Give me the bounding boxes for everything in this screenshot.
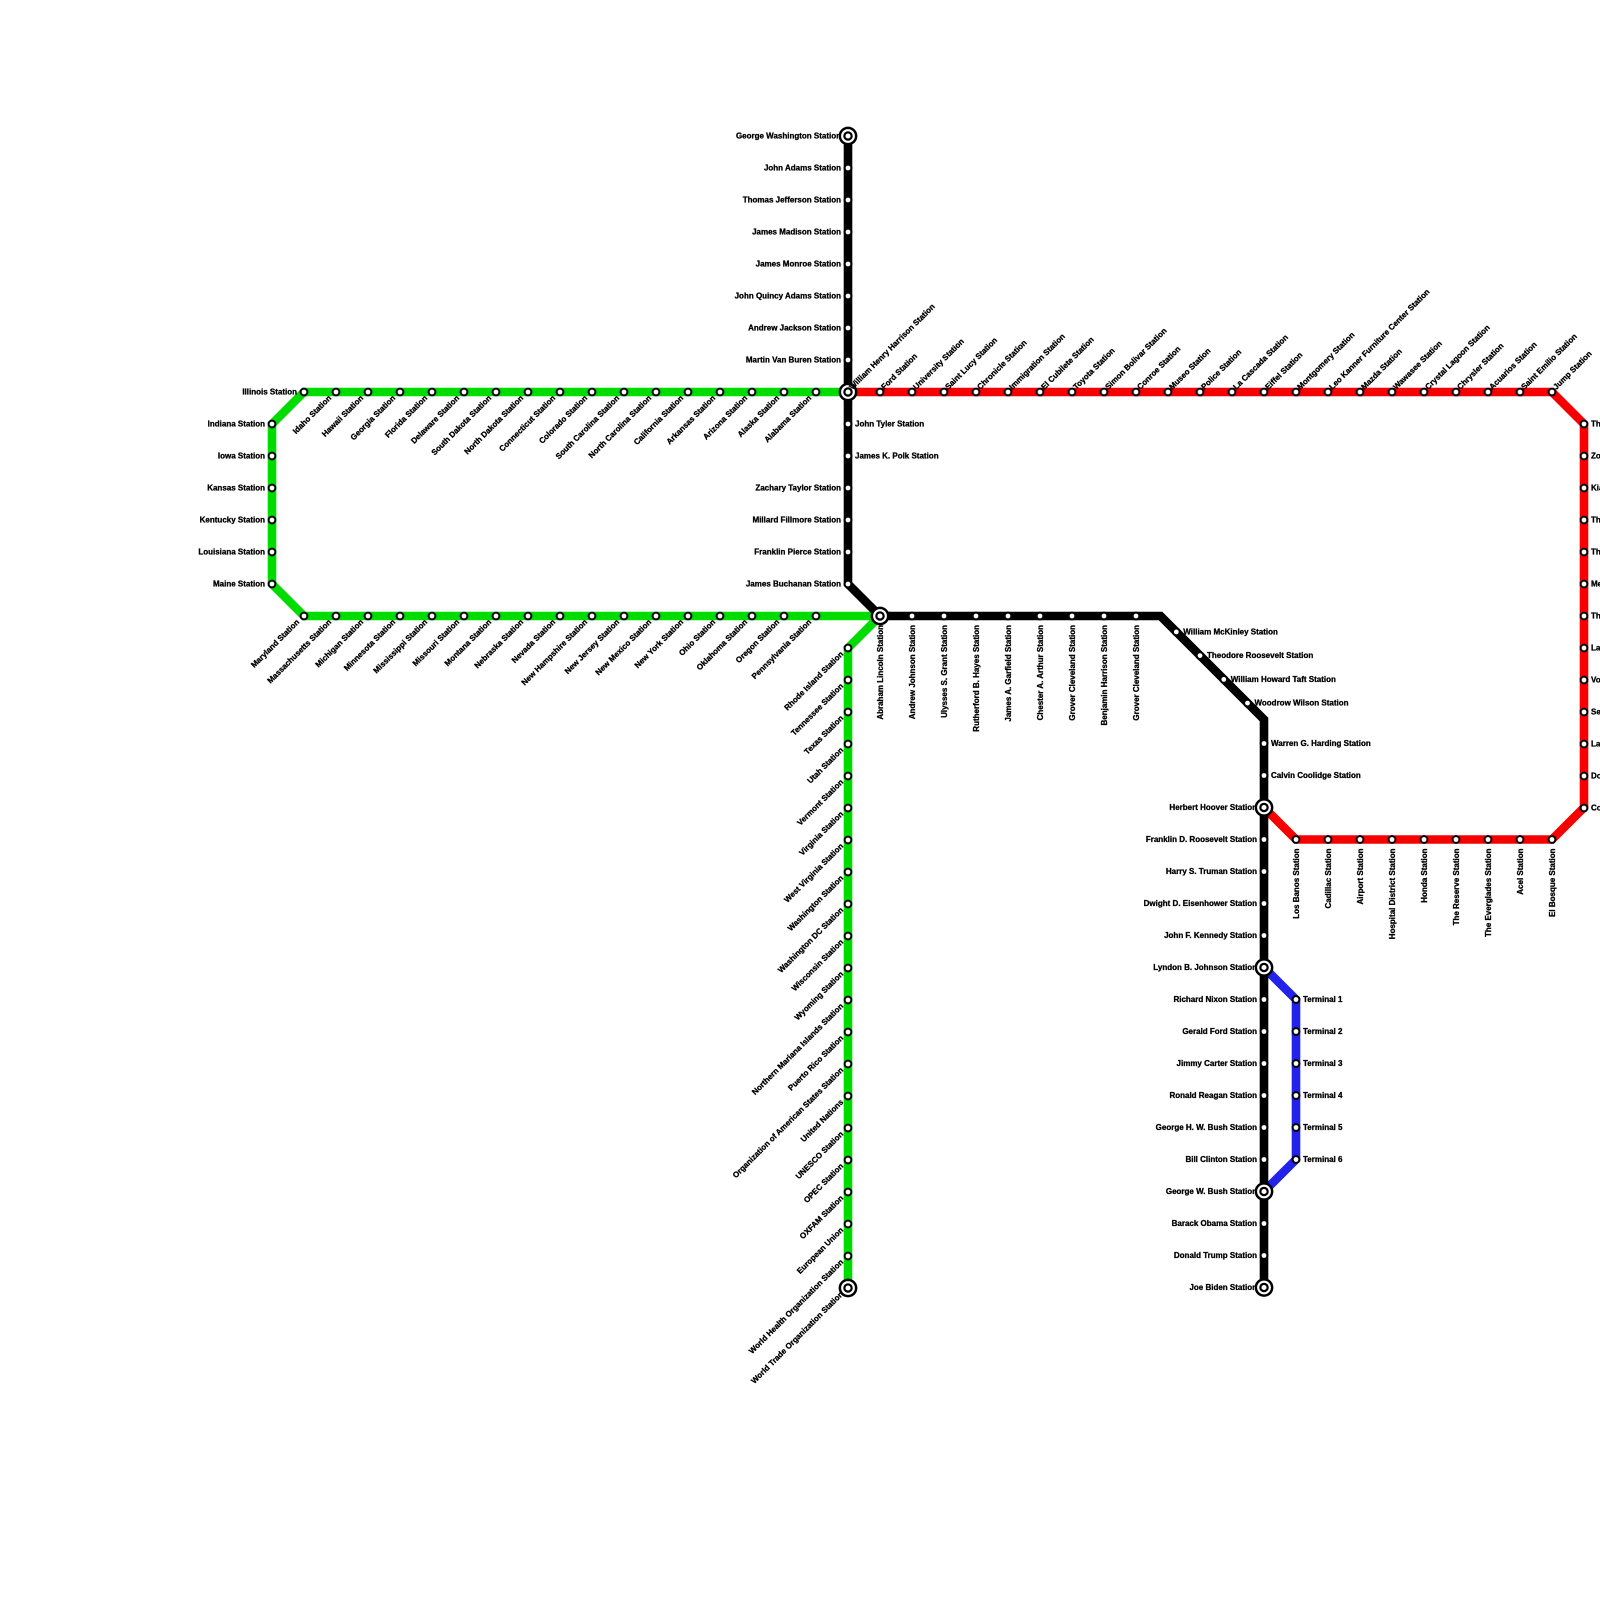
station John F. Kennedy Station <box>1164 931 1268 940</box>
station Grover Cleveland Station <box>1068 612 1077 721</box>
svg-text:Harry S. Truman Station: Harry S. Truman Station <box>1166 867 1257 876</box>
station Conroe Station <box>1132 344 1183 396</box>
station Abraham Lincoln Station <box>871 607 890 720</box>
station Massachusetts Station <box>266 612 341 686</box>
station New Hampshire Station <box>520 612 597 688</box>
station Chrysler Station <box>1452 341 1506 396</box>
black line (Presidents line) <box>848 136 1264 1288</box>
station Ford Station <box>876 352 920 397</box>
svg-text:Acel Station: Acel Station <box>1516 848 1525 894</box>
station Warren G. Harding Station <box>1260 739 1371 748</box>
svg-text:George Washington Station: George Washington Station <box>736 131 841 140</box>
station Eiffel Station <box>1260 350 1305 396</box>
station Florida Station <box>383 388 436 440</box>
station Maine Station <box>213 579 276 588</box>
svg-text:Jimmy Carter Station: Jimmy Carter Station <box>1177 1059 1258 1068</box>
station Arizona Station <box>701 388 756 442</box>
station New Mexico Station <box>594 612 661 678</box>
station Police Station <box>1196 348 1244 397</box>
svg-text:Cadillac Station: Cadillac Station <box>1324 848 1333 908</box>
station Missouri Station <box>411 612 469 668</box>
svg-text:James Monroe Station: James Monroe Station <box>756 259 841 268</box>
svg-text:Andrew Johnson Station: Andrew Johnson Station <box>908 625 917 719</box>
station Millard Fillmore Station <box>753 515 853 524</box>
svg-text:The Everglades Station: The Everglades Station <box>1484 848 1493 937</box>
svg-text:Kentucky Station: Kentucky Station <box>200 515 265 524</box>
station Delaware Station <box>409 388 468 446</box>
station Kentucky Station <box>200 515 277 524</box>
svg-text:Ronald Reagan Station: Ronald Reagan Station <box>1169 1091 1257 1100</box>
station Zachary Taylor Station <box>755 483 852 492</box>
station United Nations <box>799 1092 852 1144</box>
station Idaho Station <box>291 388 340 436</box>
station Georgia Station <box>349 388 405 443</box>
station Terminal 5 <box>1292 1123 1343 1132</box>
svg-text:John Adams Station: John Adams Station <box>764 163 841 172</box>
svg-text:Woodrow Wilson Station: Woodrow Wilson Station <box>1255 699 1349 708</box>
station Louisiana Station <box>198 547 276 556</box>
svg-text:John F. Kennedy Station: John F. Kennedy Station <box>1164 931 1257 940</box>
station Rutherford B. Hayes Station <box>972 612 981 732</box>
station George Washington Station <box>736 127 857 146</box>
station William Howard Taft Station <box>1219 675 1336 684</box>
station Kia Station <box>1580 483 1600 492</box>
svg-text:The Lakes Station: The Lakes Station <box>1591 515 1600 524</box>
svg-text:James Madison Station: James Madison Station <box>752 227 841 236</box>
svg-text:Terminal 1: Terminal 1 <box>1303 995 1343 1004</box>
station The Pines Station <box>1580 547 1600 556</box>
station World Health Organization Station <box>747 1252 852 1356</box>
station Herbert Hoover Station <box>1169 798 1273 817</box>
svg-text:James K. Polk Station: James K. Polk Station <box>855 451 939 460</box>
svg-text:Terminal 2: Terminal 2 <box>1303 1027 1343 1036</box>
station Arkansas Station <box>665 388 725 447</box>
station The Docks Station <box>1580 611 1600 620</box>
station John Quincy Adams Station <box>735 291 853 300</box>
station Oklahoma Station <box>695 612 757 673</box>
station Terminal 3 <box>1292 1059 1343 1068</box>
station Leo Kanner Furniture Center Station <box>1324 287 1432 396</box>
station Michigan Station <box>314 612 373 670</box>
svg-text:Lyndon B. Johnson Station: Lyndon B. Johnson Station <box>1153 963 1257 972</box>
station George H. W. Bush Station <box>1156 1123 1269 1132</box>
svg-text:The Docks Station: The Docks Station <box>1591 611 1600 620</box>
station The Lakes Station <box>1580 515 1600 524</box>
svg-text:Benjamin Harrison Station: Benjamin Harrison Station <box>1100 625 1109 726</box>
station University Station <box>908 337 966 397</box>
station Benjamin Harrison Station <box>1100 612 1109 726</box>
station Terminal 4 <box>1292 1091 1343 1100</box>
station South Carolina Station <box>554 388 629 461</box>
svg-text:Indiana Station: Indiana Station <box>208 419 265 428</box>
station Chester A. Arthur Station <box>1036 612 1045 721</box>
station Colorado Station <box>537 388 596 446</box>
red line (East loop line) <box>848 392 1584 840</box>
station North Carolina Station <box>587 388 661 460</box>
svg-text:Theodore Roosevelt Station: Theodore Roosevelt Station <box>1207 651 1313 660</box>
svg-text:Grover Cleveland Station: Grover Cleveland Station <box>1132 625 1141 721</box>
svg-text:James A. Garfield Station: James A. Garfield Station <box>1004 625 1013 722</box>
station New York Station <box>633 612 693 670</box>
station Saint Lucy Station <box>940 336 1000 397</box>
station Mercado Station <box>1580 579 1600 588</box>
station El Bosque Station <box>1548 835 1557 917</box>
svg-text:Kia Station: Kia Station <box>1591 483 1600 492</box>
station Wyoming Station <box>793 964 853 1023</box>
station Oregon Station <box>734 612 788 665</box>
svg-text:Louisiana Station: Louisiana Station <box>198 547 265 556</box>
station Andrew Jackson Station <box>748 323 852 332</box>
svg-text:Joe Biden Station: Joe Biden Station <box>1189 1283 1257 1292</box>
station Dwight D. Eisenhower Station <box>1144 899 1269 908</box>
station Lyndon B. Johnson Station <box>1153 958 1273 977</box>
station Montgomery Station <box>1292 330 1357 396</box>
station West Virginia Station <box>782 836 852 905</box>
station OPEC Station <box>802 1156 852 1205</box>
svg-text:Terminal 5: Terminal 5 <box>1303 1123 1343 1132</box>
station Organization of American States Station <box>731 1060 852 1180</box>
station Chronicle Station <box>972 338 1029 396</box>
station Illinois Station <box>242 387 308 396</box>
station Wawasee Station <box>1388 339 1444 396</box>
svg-text:Grover Cleveland Station: Grover Cleveland Station <box>1068 625 1077 721</box>
station Franklin Pierce Station <box>754 547 852 556</box>
svg-text:Bill Clinton Station: Bill Clinton Station <box>1185 1155 1257 1164</box>
svg-text:Franklin D. Roosevelt Station: Franklin D. Roosevelt Station <box>1146 835 1257 844</box>
station Alaska Station <box>736 388 789 439</box>
station Toyota Station <box>1068 346 1117 396</box>
station Grover Cleveland Station <box>1132 612 1141 721</box>
station Mazda Station <box>1356 347 1404 396</box>
svg-text:Millard Fillmore Station: Millard Fillmore Station <box>753 515 842 524</box>
station Vermont Station <box>795 772 852 828</box>
svg-text:Zachary Taylor Station: Zachary Taylor Station <box>755 483 841 492</box>
svg-text:Honda Station: Honda Station <box>1420 848 1429 902</box>
station Hospital District Station <box>1388 835 1397 939</box>
svg-text:Warren G. Harding Station: Warren G. Harding Station <box>1271 739 1371 748</box>
svg-text:Gerald Ford Station: Gerald Ford Station <box>1182 1027 1257 1036</box>
station South Dakota Station <box>430 388 501 458</box>
svg-text:Herbert Hoover Station: Herbert Hoover Station <box>1169 803 1257 812</box>
station Hawaii Station <box>320 388 372 439</box>
station Texas Station <box>802 708 852 757</box>
svg-text:Iowa Station: Iowa Station <box>218 451 265 460</box>
svg-text:Illinois Station: Illinois Station <box>242 387 297 396</box>
station James Madison Station <box>752 227 852 236</box>
svg-text:William McKinley Station: William McKinley Station <box>1183 627 1278 636</box>
station James Buchanan Station <box>746 579 853 588</box>
station Utah Station <box>806 740 853 786</box>
station Thomas Jefferson Station <box>743 195 853 204</box>
station California Station <box>632 388 692 447</box>
station James A. Garfield Station <box>1004 612 1013 722</box>
station The Hills Station <box>1580 419 1600 428</box>
station New Jersey Station <box>563 612 628 676</box>
svg-text:Andrew Jackson Station: Andrew Jackson Station <box>748 323 841 332</box>
station Downtown Station <box>1580 771 1600 780</box>
station UNESCO Station <box>794 1124 852 1181</box>
station Indiana Station <box>208 419 277 428</box>
station Coliseo Station <box>1580 803 1600 812</box>
station La Cascada Station <box>1228 333 1290 397</box>
station Jump Station <box>1548 349 1594 396</box>
station Theodore Roosevelt Station <box>1196 651 1314 660</box>
station Washington DC Station <box>776 900 852 975</box>
svg-text:John Quincy Adams Station: John Quincy Adams Station <box>735 291 841 300</box>
svg-text:John Tyler Station: John Tyler Station <box>855 419 924 428</box>
svg-text:Zoo Station: Zoo Station <box>1591 451 1600 460</box>
station Maryland Station <box>249 612 308 670</box>
station Gerald Ford Station <box>1182 1027 1268 1036</box>
svg-text:Calvin Coolidge Station: Calvin Coolidge Station <box>1271 771 1361 780</box>
station Barack Obama Station <box>1172 1219 1269 1228</box>
station Simon Bolivar Station <box>1100 326 1169 396</box>
svg-text:Abraham Lincoln Station: Abraham Lincoln Station <box>876 625 885 720</box>
station Donald Trump Station <box>1174 1251 1269 1260</box>
station OXFAM Station <box>798 1188 852 1241</box>
station Franklin D. Roosevelt Station <box>1146 835 1269 844</box>
station Cadillac Station <box>1324 835 1333 908</box>
station Alabama Station <box>763 388 821 445</box>
station John Tyler Station <box>844 419 925 428</box>
station Immigration Station <box>1004 332 1067 397</box>
station Nebraska Station <box>473 612 533 671</box>
station Airport Station <box>1356 835 1365 904</box>
station Kansas Station <box>207 483 276 492</box>
station Connecticut Station <box>497 388 564 454</box>
station Richard Nixon Station <box>1173 995 1268 1004</box>
station Terminal 1 <box>1292 995 1343 1004</box>
svg-text:Terminal 6: Terminal 6 <box>1303 1155 1343 1164</box>
svg-text:La Paz Station: La Paz Station <box>1591 643 1600 652</box>
station Martin Van Buren Station <box>746 355 853 364</box>
svg-text:Thomas Jefferson Station: Thomas Jefferson Station <box>743 195 841 204</box>
svg-text:Richard Nixon Station: Richard Nixon Station <box>1173 995 1257 1004</box>
svg-text:Terminal 4: Terminal 4 <box>1303 1091 1343 1100</box>
station John Adams Station <box>764 163 852 172</box>
svg-text:Downtown Station: Downtown Station <box>1591 771 1600 780</box>
svg-text:Coliseo Station: Coliseo Station <box>1591 803 1600 812</box>
station William Henry Harrison Station <box>839 302 937 401</box>
svg-text:Ulysses S. Grant Station: Ulysses S. Grant Station <box>940 625 949 718</box>
svg-text:Barack Obama Station: Barack Obama Station <box>1172 1219 1257 1228</box>
station World Trade Organization Station <box>749 1279 857 1386</box>
station Ronald Reagan Station <box>1169 1091 1268 1100</box>
station Northern Mariana Islands Station <box>750 996 852 1097</box>
svg-text:The Reserve Station: The Reserve Station <box>1452 848 1461 925</box>
station Virginia Station <box>797 804 852 858</box>
station Wisconsin Station <box>790 932 853 993</box>
svg-text:Terminal 3: Terminal 3 <box>1303 1059 1343 1068</box>
station Woodrow Wilson Station <box>1243 699 1349 708</box>
station The Everglades Station <box>1484 835 1493 937</box>
svg-text:Airport Station: Airport Station <box>1356 848 1365 904</box>
svg-text:George W. Bush Station: George W. Bush Station <box>1166 1187 1257 1196</box>
station Puerto Rico Station <box>786 1028 852 1093</box>
station Terminal 6 <box>1292 1155 1343 1164</box>
station Seaport Station <box>1580 707 1600 716</box>
station Honda Station <box>1420 835 1429 903</box>
station North Dakota Station <box>463 388 533 457</box>
svg-text:The Pines Station: The Pines Station <box>1591 547 1600 556</box>
svg-text:El Bosque Station: El Bosque Station <box>1548 848 1557 917</box>
station Saint Emilio Station <box>1516 332 1579 397</box>
station Calvin Coolidge Station <box>1260 771 1361 780</box>
svg-text:Martin Van Buren Station: Martin Van Buren Station <box>746 355 841 364</box>
station George W. Bush Station <box>1166 1182 1274 1201</box>
svg-text:Maine Station: Maine Station <box>213 579 265 588</box>
station Acel Station <box>1516 835 1525 895</box>
svg-text:Franklin Pierce Station: Franklin Pierce Station <box>754 547 841 556</box>
station Tennessee Station <box>789 676 852 738</box>
svg-text:Los Banos Station: Los Banos Station <box>1292 848 1301 918</box>
station James K. Polk Station <box>844 451 939 460</box>
station Pennsylvania Station <box>750 612 820 681</box>
svg-text:The Hills Station: The Hills Station <box>1591 419 1600 428</box>
green line (States line) <box>272 392 880 1288</box>
station Ulysses S. Grant Station <box>940 612 949 718</box>
svg-text:Hospital District Station: Hospital District Station <box>1388 848 1397 939</box>
svg-text:Kansas Station: Kansas Station <box>207 483 265 492</box>
svg-text:Donald Trump Station: Donald Trump Station <box>1174 1251 1257 1260</box>
station European Union <box>795 1220 852 1276</box>
station Crystal Lagoon Station <box>1420 323 1492 396</box>
svg-text:La Playa Station: La Playa Station <box>1591 739 1600 748</box>
station Harry S. Truman Station <box>1166 867 1269 876</box>
svg-text:Dwight D. Eisenhower Station: Dwight D. Eisenhower Station <box>1144 899 1257 908</box>
station Andrew Johnson Station <box>908 612 917 720</box>
station El Cubilete Station <box>1036 335 1096 396</box>
station Terminal 2 <box>1292 1027 1343 1036</box>
station Los Banos Station <box>1292 835 1301 919</box>
station Ohio Station <box>677 612 724 658</box>
station Joe Biden Station <box>1189 1278 1273 1297</box>
station La Playa Station <box>1580 739 1600 748</box>
station Iowa Station <box>218 451 277 460</box>
svg-text:Mercado Station: Mercado Station <box>1591 579 1600 588</box>
svg-text:Seaport Station: Seaport Station <box>1591 707 1600 716</box>
station Jimmy Carter Station <box>1177 1059 1269 1068</box>
station La Paz Station <box>1580 643 1600 652</box>
station Nevada Station <box>510 612 564 665</box>
svg-text:Volcano Station: Volcano Station <box>1591 675 1600 684</box>
svg-text:Rutherford B. Hayes Station: Rutherford B. Hayes Station <box>972 625 981 732</box>
station Acuarios Station <box>1484 340 1539 396</box>
station Mississippi Station <box>372 612 437 676</box>
svg-text:William Howard Taft Station: William Howard Taft Station <box>1231 675 1336 684</box>
station The Reserve Station <box>1452 835 1461 925</box>
svg-text:Chester A. Arthur Station: Chester A. Arthur Station <box>1036 625 1045 721</box>
svg-text:George H. W. Bush Station: George H. W. Bush Station <box>1156 1123 1257 1132</box>
station Zoo Station <box>1580 451 1600 460</box>
station Minnesota Station <box>342 612 404 673</box>
station Bill Clinton Station <box>1185 1155 1268 1164</box>
station Washington Station <box>786 868 852 933</box>
station Montana Station <box>443 612 501 668</box>
station James Monroe Station <box>756 259 853 268</box>
station Rhode Island Station <box>783 644 853 713</box>
station Museo Station <box>1164 346 1213 396</box>
station Volcano Station <box>1580 675 1600 684</box>
station William McKinley Station <box>1172 627 1278 636</box>
blue line (Terminals shuttle) <box>1264 968 1296 1192</box>
svg-text:James Buchanan Station: James Buchanan Station <box>746 579 841 588</box>
